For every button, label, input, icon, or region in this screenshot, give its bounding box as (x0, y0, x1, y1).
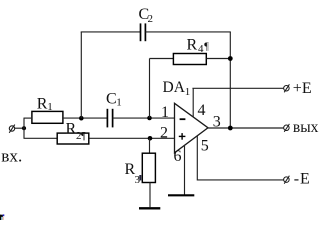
input terminal circle (9, 125, 15, 133)
wire top right (145, 31, 230, 33)
svg-text:-E: -E (294, 170, 311, 187)
svg-text:1: 1 (47, 101, 53, 113)
capacitor C1 (107, 109, 112, 128)
wire R4 left lead (150, 58, 174, 60)
svg-text:2: 2 (160, 125, 168, 142)
svg-text:4: 4 (198, 102, 206, 119)
wire R1 to C1 (63, 117, 108, 119)
wire R3 lower lead (149, 183, 151, 208)
ground under pin 6 (168, 194, 194, 196)
svg-text:вх.: вх. (1, 147, 22, 166)
wire feedback vertical (229, 32, 231, 128)
svg-text:вых: вых (293, 119, 319, 136)
terminal +E (284, 84, 290, 92)
wire R4 to inverting node (149, 59, 151, 119)
wire C1 to opamp (113, 117, 175, 119)
resistor R4 (173, 54, 206, 65)
node R3 tap junction (148, 136, 153, 141)
wire lower to R2 (24, 137, 58, 139)
wire input stub (15, 127, 24, 129)
svg-text:¶: ¶ (81, 131, 86, 142)
wire input vertical (23, 118, 25, 138)
ground under R3 (139, 207, 160, 209)
svg-text:DA: DA (163, 79, 186, 96)
svg-text:5: 5 (201, 137, 209, 154)
svg-text:C: C (106, 91, 117, 108)
svg-text:R: R (66, 120, 77, 137)
svg-text:+E: +E (293, 80, 312, 97)
node output junction (228, 126, 233, 131)
resistor R2 (57, 133, 89, 144)
svg-text:4: 4 (198, 43, 204, 55)
svg-text:1: 1 (116, 97, 122, 109)
resistor R3 (142, 153, 155, 182)
wire C2 left leg (80, 32, 82, 118)
corner artifact (0, 215, 3, 217)
plus mark (179, 133, 186, 140)
minus mark (180, 118, 186, 120)
pin 5 drop (197, 136, 283, 180)
resistor R1 (32, 111, 63, 123)
node C junction (147, 116, 152, 121)
terminal out (284, 124, 290, 132)
pin 4 riser (192, 88, 194, 117)
svg-text:2: 2 (148, 13, 154, 25)
node input junction (22, 126, 26, 130)
capacitor C2 (141, 23, 146, 41)
wire R3 upper lead (149, 138, 151, 153)
wire R4 right lead (207, 58, 231, 60)
terminal -E (284, 176, 290, 184)
svg-text:¶: ¶ (204, 42, 209, 53)
wire top left (81, 31, 141, 33)
svg-text:R: R (37, 96, 48, 113)
pin 6 drop (184, 145, 186, 195)
svg-text:1: 1 (185, 86, 191, 98)
op-amp DA1 (175, 103, 209, 153)
wire plus supply (192, 87, 283, 89)
node R4 feedback junction (228, 56, 233, 61)
svg-text:R: R (187, 36, 198, 53)
wire R2 to opamp (89, 137, 174, 139)
svg-text:6: 6 (174, 148, 182, 165)
wire to R1 (24, 117, 32, 119)
wire output (208, 127, 284, 129)
node B junction (79, 116, 84, 121)
svg-text:1: 1 (161, 104, 169, 121)
